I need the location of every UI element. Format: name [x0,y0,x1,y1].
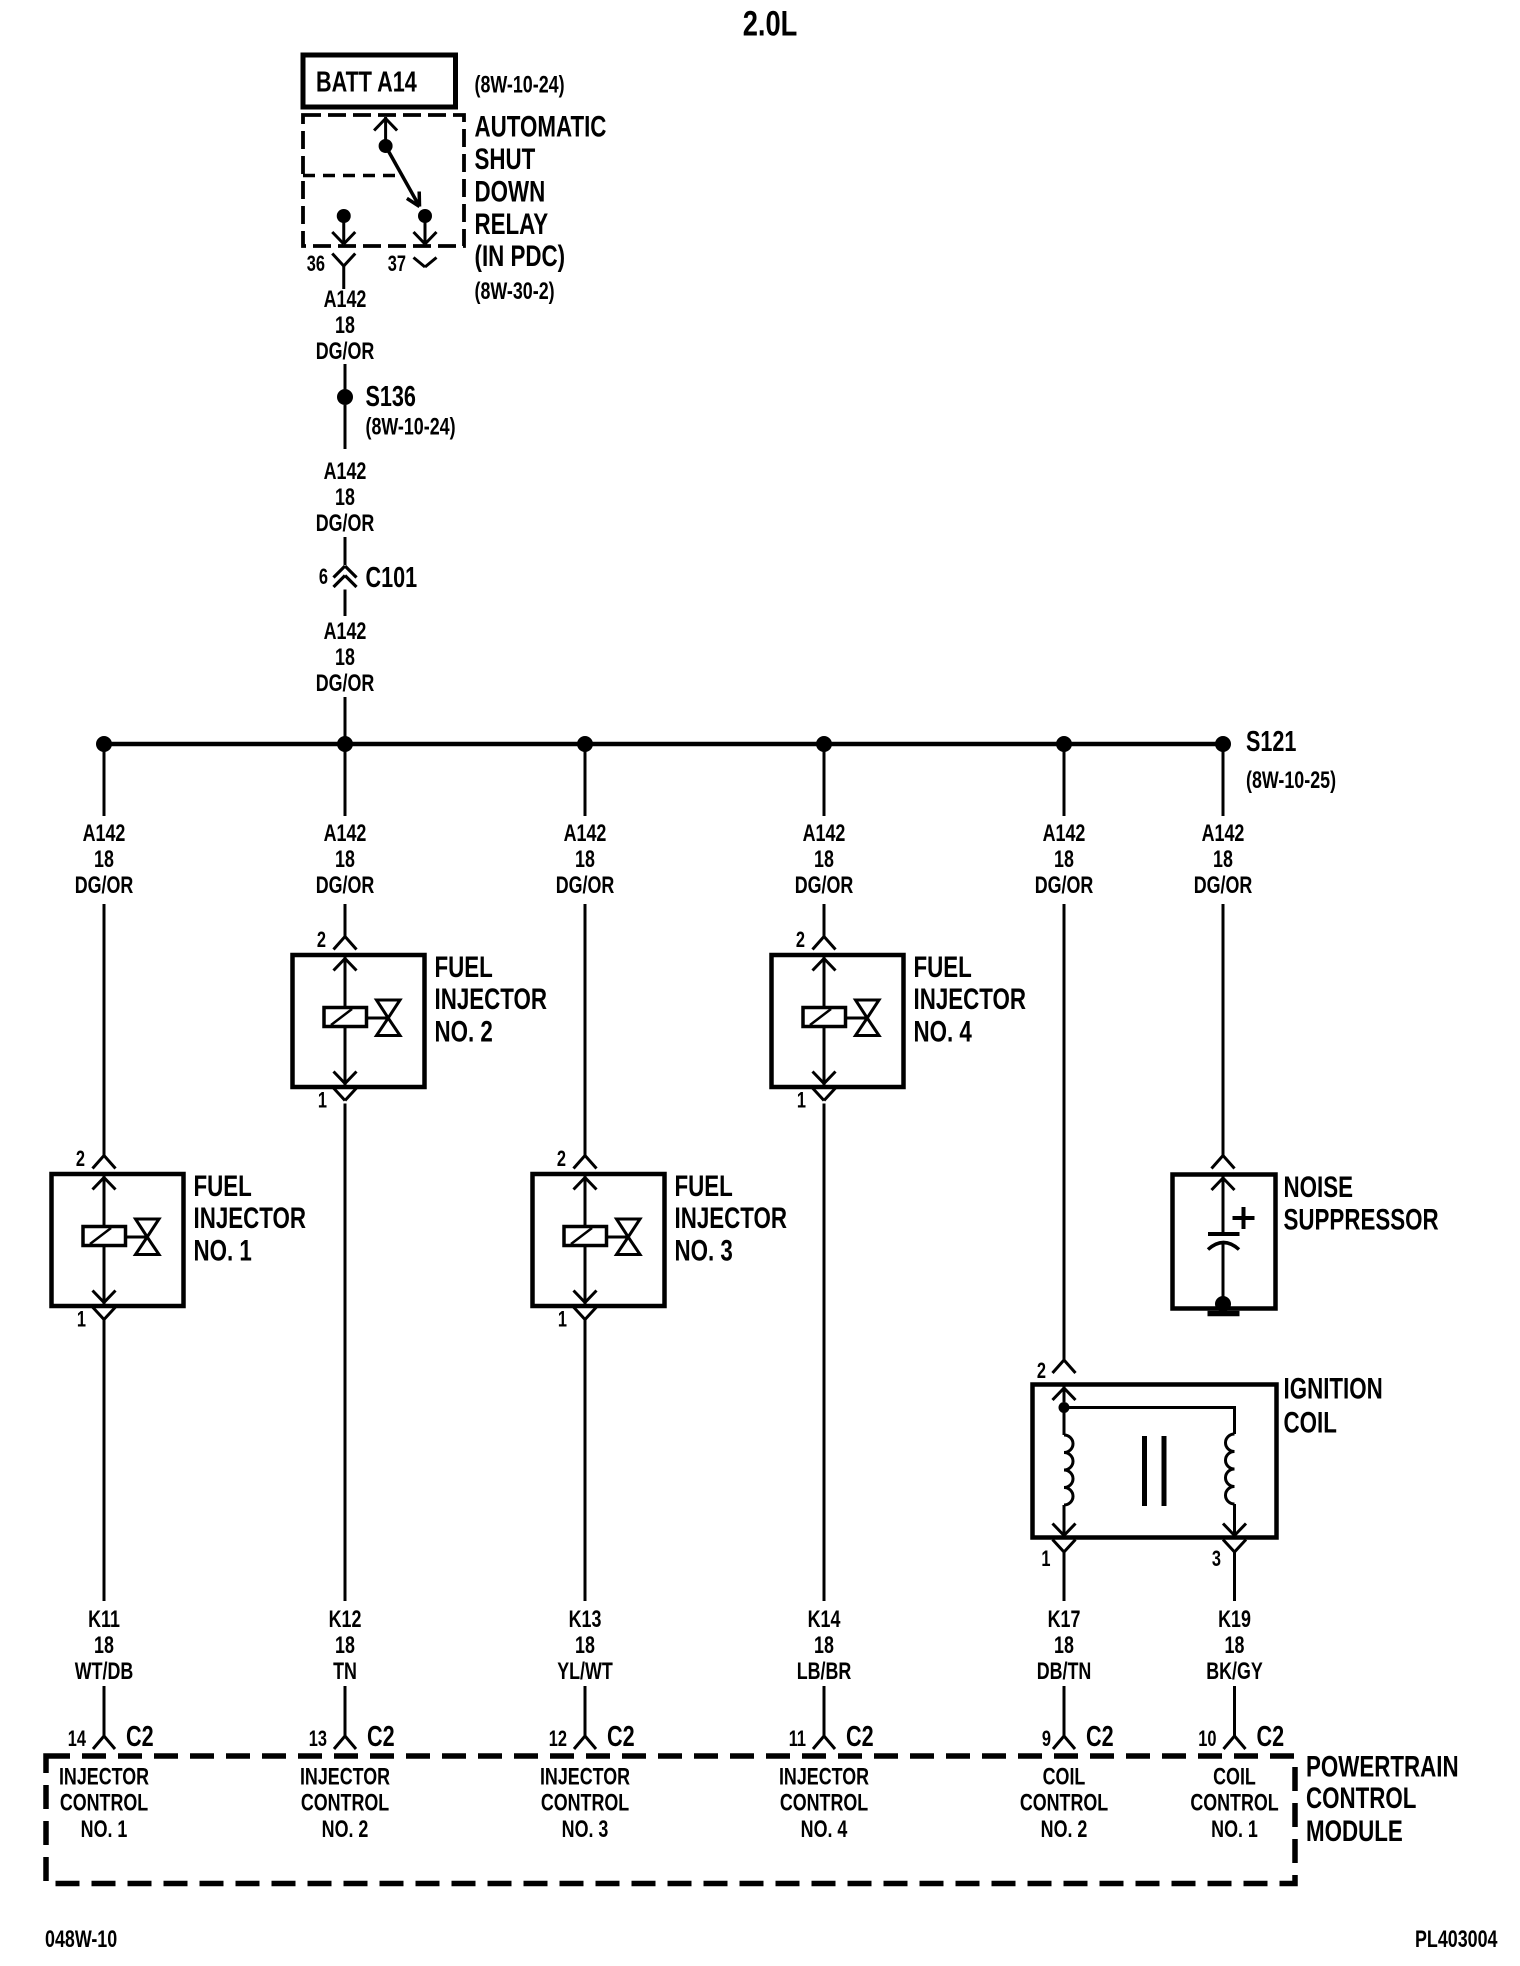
PCM connector pin 11 label [789,1727,806,1752]
ignition coil pin 1 connector [1053,1540,1076,1553]
fuel injector no. 3 pin 1 label [558,1307,567,1332]
svg-text:NO. 1: NO. 1 [194,1233,252,1267]
relay armature switch arm arrow [386,146,420,207]
svg-text:INJECTOR: INJECTOR [675,1201,788,1235]
title 2.0L [743,4,798,43]
branch wire from S121 bus, column 1 [103,746,106,816]
noise suppressor connector pin [1212,1156,1235,1169]
ignition coil internal junction node [1059,1402,1070,1413]
fuel injector no. 1 box [52,1174,184,1306]
value label A142 18 DG/OR wire [795,821,854,899]
wire K19 from label to PCM pin 10 [1233,1686,1236,1736]
svg-text:1: 1 [797,1088,806,1113]
svg-text:NO. 1: NO. 1 [81,1816,128,1842]
value label K13 18 YL/WT wire [557,1607,613,1685]
fuel injector no. 3 pin 2 connector [574,1156,597,1169]
reference (8W-10-24) for S136 [366,414,456,440]
svg-text:10: 10 [1198,1727,1216,1752]
footer drawing number PL403004 [1415,1927,1498,1953]
svg-text:A142: A142 [803,821,846,847]
noise suppressor capacitor curved plate [1208,1243,1239,1250]
svg-text:2: 2 [76,1147,85,1172]
svg-text:NO. 2: NO. 2 [1041,1816,1088,1842]
svg-text:FUEL: FUEL [914,950,972,984]
svg-text:FUEL: FUEL [435,950,493,984]
fuel injector no. 4 box [772,955,904,1087]
noise suppressor capacitor top plate [1208,1232,1240,1236]
svg-text:CONTROL: CONTROL [1020,1790,1108,1816]
PCM connector pin 13 symbol [334,1736,356,1749]
wire column 3 down to fuel injector no. 3 [584,904,587,1156]
svg-text:C2: C2 [1257,1721,1285,1753]
fuel injector no. 1 name [194,1169,307,1268]
splice S121 label [1246,726,1296,758]
branch wire from S121 bus, column 6 [1222,746,1225,816]
ignition coil internal feed arrow [1053,1387,1076,1403]
fuel injector no. 1 valve nozzle [126,1219,160,1255]
svg-text:18: 18 [814,847,834,873]
svg-text:DB/TN: DB/TN [1037,1659,1092,1685]
fuel injector no. 1 pin 2 connector [93,1156,116,1169]
wire column 6 down to noise suppressor [1222,904,1225,1156]
fuel injector no. 3 internal output arrow [574,1246,597,1305]
PCM connector C2 label at pin 12 [607,1721,635,1753]
PCM connector pin 10 label [1198,1727,1216,1752]
svg-text:CONTROL: CONTROL [1190,1790,1278,1816]
svg-text:2.0L: 2.0L [743,4,798,43]
fuel injector no. 1 pin 2 label [76,1147,85,1172]
relay pin 37 output arrow [414,216,437,244]
svg-text:A142: A142 [1043,821,1086,847]
fuel injector no. 1 pin 1 label [77,1307,86,1332]
svg-text:CONTROL: CONTROL [60,1790,148,1816]
battery feed BATT A14 box [303,55,456,107]
value label A142 18 DG/OR wire [1035,821,1094,899]
svg-text:FUEL: FUEL [675,1169,733,1203]
svg-text:AUTOMATIC: AUTOMATIC [475,109,607,143]
svg-text:INJECTOR: INJECTOR [779,1764,869,1790]
svg-text:DG/OR: DG/OR [316,873,375,899]
svg-text:18: 18 [575,847,595,873]
svg-text:CONTROL: CONTROL [541,1790,629,1816]
fuel injector no. 3 pin 2 label [557,1147,566,1172]
svg-text:IGNITION: IGNITION [1284,1371,1383,1405]
fuel injector no. 2 pin 1 connector [334,1088,357,1101]
svg-text:18: 18 [335,313,355,339]
wire column 5 down to ignition coil pin 2 [1063,904,1066,1360]
fuel injector no. 4 solenoid coil [803,1008,846,1027]
svg-text:K14: K14 [808,1607,841,1633]
fuel injector no. 2 internal output arrow [334,1027,357,1086]
wire column 4 down to fuel injector no. 4 [823,904,826,937]
ignition coil pin 1 label [1041,1547,1050,1572]
svg-text:NO. 4: NO. 4 [914,1014,973,1048]
svg-text:COIL: COIL [1284,1405,1337,1439]
fuel injector no. 3 pin 1 connector [574,1307,597,1320]
svg-text:DG/OR: DG/OR [795,873,854,899]
PCM connector pin 9 symbol [1053,1736,1075,1749]
svg-text:2: 2 [796,928,805,953]
svg-text:INJECTOR: INJECTOR [194,1201,307,1235]
noise suppressor ground node [1215,1296,1231,1312]
value label K11 18 WT/DB wire [75,1607,134,1685]
svg-text:11: 11 [789,1727,806,1752]
PCM connector C2 label at pin 11 [846,1721,874,1753]
fuel injector no. 3 internal feed arrow [574,1176,597,1227]
fuel injector no. 4 pin 1 connector [813,1088,836,1101]
value label A142 18 DG/OR wire [316,821,375,899]
svg-text:CONTROL: CONTROL [780,1790,868,1816]
svg-text:9: 9 [1042,1727,1051,1752]
value label A142 18 DG/OR wire [316,459,375,537]
value label A142 18 DG/OR wire [75,821,134,899]
branch wire from S121 bus, column 3 [584,746,587,816]
svg-text:NO. 3: NO. 3 [562,1816,609,1842]
svg-text:S121: S121 [1246,726,1296,758]
reference (8W-10-25) for S121 [1246,768,1336,794]
wire column 1 down to fuel injector no. 1 [103,904,106,1156]
svg-text:CONTROL: CONTROL [1306,1781,1416,1815]
svg-text:MODULE: MODULE [1306,1814,1403,1848]
ignition coil pin 2 label [1037,1359,1046,1384]
svg-text:18: 18 [335,485,355,511]
value label A142 18 DG/OR wire [316,287,375,365]
wire from splice S136 to connector C101 [344,405,347,565]
svg-text:WT/DB: WT/DB [75,1659,134,1685]
svg-text:NO. 4: NO. 4 [801,1816,848,1842]
value label K14 18 LB/BR wire [797,1607,852,1685]
svg-text:C2: C2 [607,1721,635,1753]
svg-text:2: 2 [317,928,326,953]
noise suppressor wire to case ground [1222,1244,1225,1304]
PCM connector C2 label at pin 13 [367,1721,395,1753]
svg-text:1: 1 [1041,1547,1050,1572]
svg-text:LB/BR: LB/BR [797,1659,852,1685]
reference (8W-10-24) for BATT A14 [475,72,565,98]
splice S121 end node col 6 [1215,736,1231,752]
svg-text:2: 2 [557,1147,566,1172]
fuel injector no. 3 valve nozzle [607,1219,641,1255]
svg-text:INJECTOR: INJECTOR [540,1764,630,1790]
wire K17 from component to label [1063,1552,1066,1601]
svg-text:RELAY: RELAY [475,207,549,241]
svg-text:K17: K17 [1048,1607,1081,1633]
wire K13 from label to PCM pin 12 [584,1686,587,1736]
PCM coil control no. 1 function label [1190,1764,1278,1842]
fuel injector no. 2 name [435,950,548,1049]
svg-text:A142: A142 [324,619,367,645]
ignition coil name [1284,1371,1383,1439]
fuel injector no. 4 pin 1 label [797,1088,806,1113]
relay pin 37 connector chevron symbol [414,258,437,268]
splice S136 label [366,381,416,413]
svg-text:DOWN: DOWN [475,174,546,208]
svg-text:18: 18 [94,847,114,873]
ignition coil primary winding [1053,1408,1076,1536]
fuel injector no. 2 valve nozzle [367,1000,401,1036]
svg-text:18: 18 [1225,1633,1245,1659]
noise suppressor box [1173,1175,1276,1309]
svg-text:NO. 2: NO. 2 [435,1014,493,1048]
splice S136 node [337,389,353,405]
svg-text:6: 6 [319,565,328,590]
value label K17 18 DB/TN wire [1037,1607,1092,1685]
svg-text:DG/OR: DG/OR [1194,873,1253,899]
fuel injector no. 2 pin 2 connector [334,937,357,950]
svg-text:K13: K13 [569,1607,602,1633]
svg-text:18: 18 [335,847,355,873]
splice S121 bus wire [104,742,1223,747]
svg-text:18: 18 [814,1633,834,1659]
svg-text:18: 18 [1054,1633,1074,1659]
powertrain control module dashed box [46,1756,1295,1884]
svg-text:SHUT: SHUT [475,142,536,176]
PCM connector pin 14 symbol [93,1736,115,1749]
svg-text:36: 36 [307,252,325,277]
svg-text:K19: K19 [1218,1607,1251,1633]
fuel injector no. 2 box [293,955,425,1087]
svg-text:(8W-10-24): (8W-10-24) [366,414,456,440]
PCM connector pin 12 symbol [574,1736,596,1749]
PCM injector control no. 1 function label [59,1764,149,1842]
svg-text:(8W-30-2): (8W-30-2) [475,279,555,305]
fuel injector no. 4 internal feed arrow [813,957,836,1008]
wire K12 from label to PCM pin 13 [344,1686,347,1736]
PCM connector pin 9 label [1042,1727,1051,1752]
splice S121 junction node col 2 [337,736,353,752]
relay armature pivot node [379,139,393,153]
svg-text:NOISE: NOISE [1284,1170,1354,1204]
svg-text:14: 14 [68,1727,86,1752]
svg-text:FUEL: FUEL [194,1169,252,1203]
svg-text:(8W-10-25): (8W-10-25) [1246,768,1336,794]
fuel injector no. 1 internal output arrow [93,1246,116,1305]
wire K12 from component to label [344,1104,347,1602]
wire K19 from component to label [1233,1552,1236,1601]
relay pin 36 connector Y symbol [332,254,355,278]
fuel injector no. 1 pin 1 connector [93,1307,116,1320]
svg-text:18: 18 [94,1633,114,1659]
svg-text:37: 37 [388,252,406,277]
relay pin 37 label [388,252,406,277]
ignition coil pin 3 connector [1223,1540,1246,1553]
svg-text:3: 3 [1212,1547,1221,1572]
svg-text:(8W-10-24): (8W-10-24) [475,72,565,98]
svg-text:DG/OR: DG/OR [556,873,615,899]
wire from connector C101 to splice S121 bus [344,590,347,745]
value label A142 18 DG/OR wire [316,619,375,697]
svg-text:A142: A142 [1202,821,1245,847]
PCM connector pin 10 symbol [1224,1736,1246,1749]
svg-text:C2: C2 [367,1721,395,1753]
svg-text:2: 2 [1037,1359,1046,1384]
svg-text:K11: K11 [88,1607,120,1633]
wire K11 from component to label [103,1318,106,1601]
branch wire from S121 bus, column 2 [344,746,347,816]
svg-text:SUPPRESSOR: SUPPRESSOR [1284,1202,1439,1236]
noise suppressor name [1284,1170,1439,1237]
relay contact node pin 37 [418,209,432,223]
svg-text:18: 18 [1054,847,1074,873]
PCM connector pin 11 symbol [813,1736,835,1749]
svg-text:PL403004: PL403004 [1415,1927,1498,1953]
svg-text:A142: A142 [83,821,126,847]
PCM connector C2 label at pin 14 [126,1721,154,1753]
PCM coil control no. 2 function label [1020,1764,1108,1842]
svg-text:TN: TN [333,1659,357,1685]
wire K14 from label to PCM pin 11 [823,1686,826,1736]
value label A142 18 DG/OR wire [556,821,615,899]
fuel injector no. 2 internal feed arrow [334,957,357,1008]
splice S121 junction node col 5 [1056,736,1072,752]
svg-text:C2: C2 [846,1721,874,1753]
relay internal divider dashed line [303,174,400,178]
svg-text:18: 18 [335,1633,355,1659]
PCM connector C2 label at pin 9 [1086,1721,1114,1753]
fuel injector no. 2 pin 2 label [317,928,326,953]
svg-text:C101: C101 [366,562,418,594]
svg-text:INJECTOR: INJECTOR [300,1764,390,1790]
fuel injector no. 2 pin 1 label [318,1088,327,1113]
value label K19 18 BK/GY wire [1206,1607,1263,1685]
svg-text:DG/OR: DG/OR [1035,873,1094,899]
splice S121 junction node col 3 [577,736,593,752]
fuel injector no. 2 solenoid coil [324,1008,367,1027]
wire column 2 down to fuel injector no. 2 [344,904,347,937]
svg-text:CONTROL: CONTROL [301,1790,389,1816]
svg-text:DG/OR: DG/OR [316,671,375,697]
svg-text:048W-10: 048W-10 [45,1927,117,1953]
svg-text:1: 1 [318,1088,327,1113]
noise suppressor internal feed arrow [1212,1177,1235,1234]
ignition coil jumper wire to secondary winding [1064,1408,1235,1435]
value label A142 18 DG/OR wire [1194,821,1253,899]
svg-text:1: 1 [77,1307,86,1332]
fuel injector no. 4 valve nozzle [846,1000,880,1036]
ignition coil pin 2 connector [1053,1360,1076,1373]
svg-text:K12: K12 [329,1607,362,1633]
connector C101 pin 6 label [319,565,328,590]
PCM injector control no. 3 function label [540,1764,630,1842]
svg-text:YL/WT: YL/WT [557,1659,613,1685]
relay pin 36 output arrow [332,216,355,244]
svg-text:COIL: COIL [1043,1764,1086,1790]
svg-text:18: 18 [335,645,355,671]
svg-text:1: 1 [558,1307,567,1332]
svg-text:C2: C2 [1086,1721,1114,1753]
relay pin 36 label [307,252,325,277]
footer sheet number 048W-10 [45,1927,117,1953]
automatic shut down relay name [475,109,607,272]
splice S121 junction node col 1 [96,736,112,752]
fuel injector no. 1 solenoid coil [83,1227,126,1246]
svg-text:BATT A14: BATT A14 [316,67,417,99]
value label K12 18 TN wire [329,1607,362,1685]
wire K11 from label to PCM pin 14 [103,1686,106,1736]
powertrain control module name [1306,1749,1459,1847]
svg-text:A142: A142 [324,287,367,313]
wire K17 from label to PCM pin 9 [1063,1686,1066,1736]
svg-text:INJECTOR: INJECTOR [914,982,1027,1016]
svg-text:C2: C2 [126,1721,154,1753]
svg-text:INJECTOR: INJECTOR [59,1764,149,1790]
connector C101 label [366,562,418,594]
svg-text:A142: A142 [324,459,367,485]
reference (8W-30-2) for relay [475,279,555,305]
svg-text:18: 18 [575,1633,595,1659]
relay coil-side node pin 36 [337,209,351,223]
fuel injector no. 1 internal feed arrow [93,1176,116,1227]
svg-text:A142: A142 [324,821,367,847]
automatic shut down relay K1 dashed box [303,115,464,246]
noise suppressor capacitor polarity plus sign [1233,1207,1255,1229]
ignition coil box [1033,1385,1277,1538]
svg-text:NO. 1: NO. 1 [1211,1816,1258,1842]
splice S121 junction node col 4 [816,736,832,752]
svg-text:(IN PDC): (IN PDC) [475,239,566,273]
svg-text:DG/OR: DG/OR [316,511,375,537]
fuel injector no. 4 internal output arrow [813,1027,836,1086]
svg-text:A142: A142 [564,821,607,847]
relay common terminal arrow to BATT [374,117,397,146]
wire from relay pin 36 to splice S136 [344,278,345,390]
svg-text:INJECTOR: INJECTOR [435,982,548,1016]
ignition coil secondary winding [1223,1434,1246,1536]
PCM connector pin 13 label [309,1727,327,1752]
PCM connector pin 12 label [549,1727,567,1752]
ignition coil core lines [1145,1436,1165,1506]
wire K14 from component to label [823,1104,826,1602]
PCM injector control no. 2 function label [300,1764,390,1842]
fuel injector no. 3 solenoid coil [564,1227,607,1246]
svg-text:NO. 3: NO. 3 [675,1233,733,1267]
connector C101 pin 6 double chevron symbol [334,566,357,587]
svg-text:COIL: COIL [1213,1764,1256,1790]
svg-text:12: 12 [549,1727,567,1752]
ignition coil pin 3 label [1212,1547,1221,1572]
branch wire from S121 bus, column 5 [1063,746,1066,816]
fuel injector no. 3 box [533,1174,665,1306]
fuel injector no. 4 pin 2 label [796,928,805,953]
svg-text:13: 13 [309,1727,327,1752]
fuel injector no. 3 name [675,1169,788,1268]
PCM injector control no. 4 function label [779,1764,869,1842]
fuel injector no. 4 pin 2 connector [813,937,836,950]
wire K13 from component to label [584,1318,587,1601]
svg-text:18: 18 [1213,847,1233,873]
svg-text:POWERTRAIN: POWERTRAIN [1306,1749,1459,1783]
svg-text:DG/OR: DG/OR [75,873,134,899]
branch wire from S121 bus, column 4 [823,746,826,816]
svg-text:DG/OR: DG/OR [316,339,375,365]
svg-text:BK/GY: BK/GY [1206,1659,1263,1685]
svg-text:S136: S136 [366,381,416,413]
noise suppressor ground bar [1208,1311,1240,1317]
PCM connector pin 14 label [68,1727,86,1752]
PCM connector C2 label at pin 10 [1257,1721,1285,1753]
fuel injector no. 4 name [914,950,1027,1049]
svg-text:NO. 2: NO. 2 [322,1816,369,1842]
